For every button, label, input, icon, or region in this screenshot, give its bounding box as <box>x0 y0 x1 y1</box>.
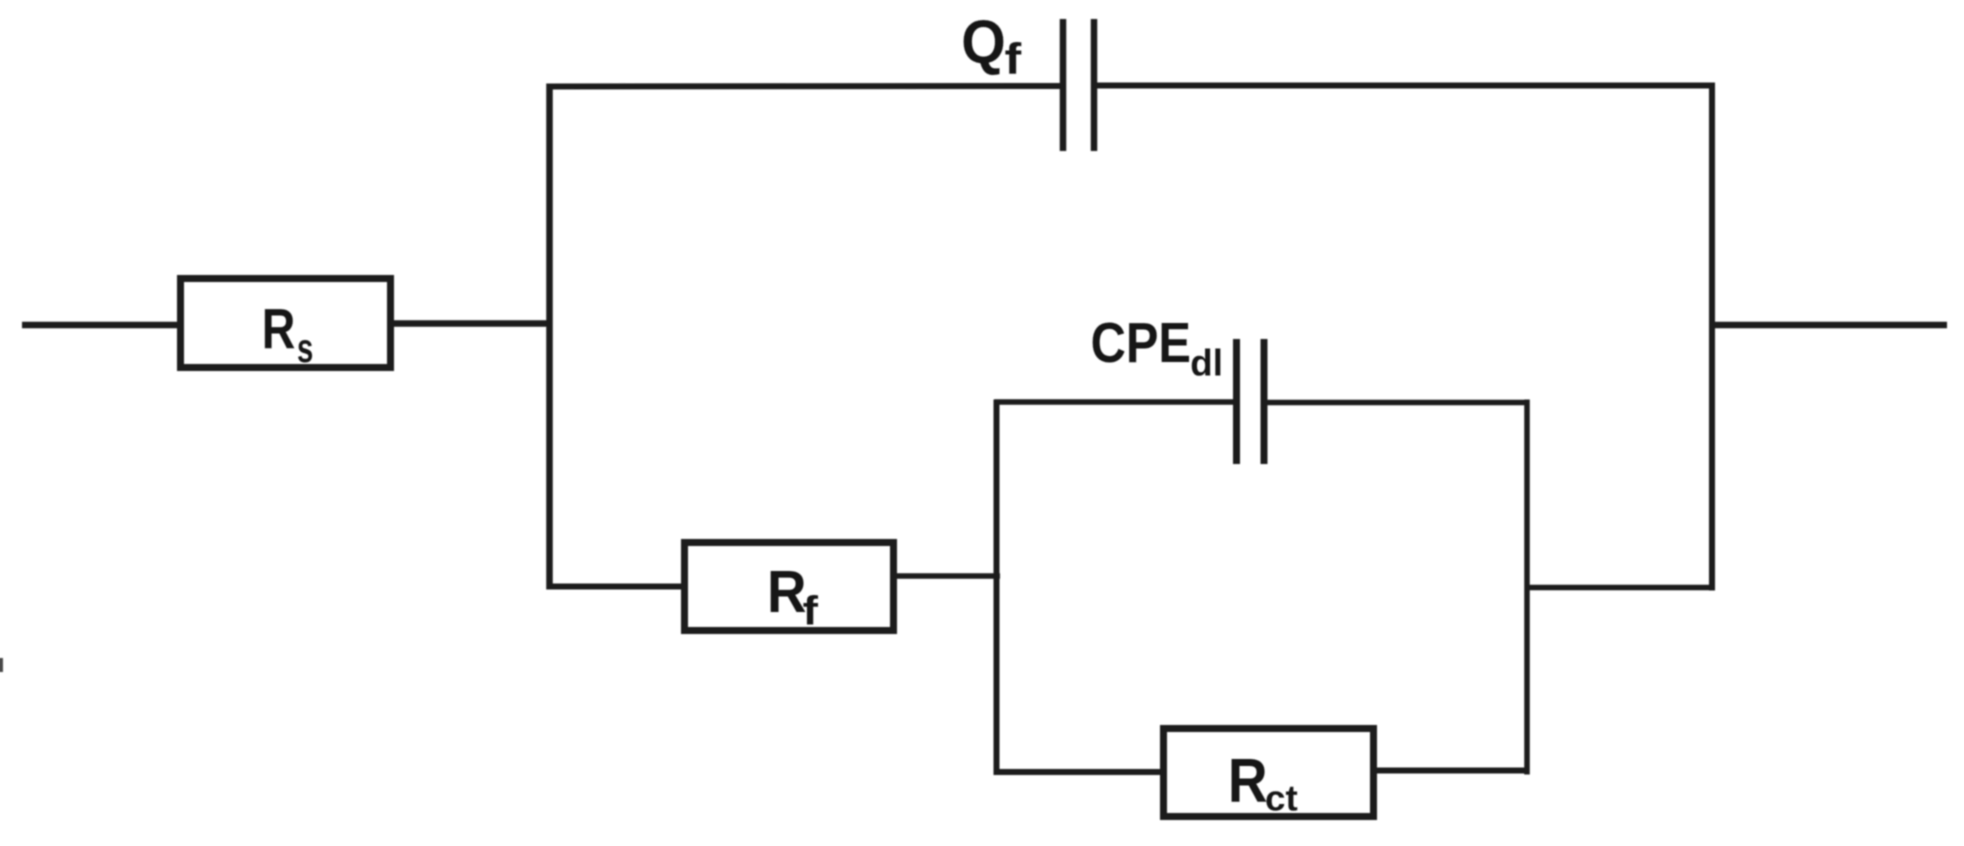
wire: Rs to left node <box>394 320 549 327</box>
node: inner left junction vertical <box>994 400 1000 776</box>
resistor Rs <box>181 279 391 368</box>
wire: inner top branch right of CPEdl <box>1268 400 1530 406</box>
wire: inner top branch left of CPEdl <box>995 399 1234 405</box>
wire: output lead <box>1712 322 1947 329</box>
wire: inner bottom branch left <box>995 769 1165 775</box>
svg-text:CPE: CPE <box>1091 311 1191 375</box>
svg-text:R: R <box>767 559 807 625</box>
capacitor CPEdl <box>1237 339 1265 464</box>
wire: inner box to right node <box>1527 585 1714 591</box>
wire: bottom branch to Rf <box>547 584 684 590</box>
svg-text:dl: dl <box>1190 343 1223 384</box>
svg-text:f: f <box>803 588 819 634</box>
svg-text:R: R <box>1228 747 1268 816</box>
svg-text:f: f <box>1005 35 1022 84</box>
resistor Rf <box>685 543 894 631</box>
node: right junction vertical <box>1709 83 1715 591</box>
edge artifact mark <box>0 658 3 672</box>
label Rct <box>1228 747 1298 819</box>
node: left junction vertical <box>546 84 553 590</box>
wire: top branch left of Qf <box>547 83 1061 90</box>
wire: top branch right of Qf <box>1097 83 1715 89</box>
wire: inner bottom branch right <box>1377 768 1530 774</box>
svg-text:R: R <box>262 298 296 362</box>
node: inner right junction vertical <box>1524 400 1530 775</box>
wire: Rf to inner left node <box>897 573 1000 579</box>
wire: input lead <box>22 322 181 329</box>
capacitor Qf <box>1063 19 1094 151</box>
label Rs <box>262 298 314 372</box>
svg-text:Q: Q <box>961 8 1006 76</box>
label Rf <box>767 559 818 634</box>
label Qf <box>961 8 1021 84</box>
svg-text:s: s <box>297 325 313 371</box>
label CPEdl <box>1091 311 1223 384</box>
resistor Rct <box>1164 729 1374 817</box>
svg-text:ct: ct <box>1265 778 1298 819</box>
